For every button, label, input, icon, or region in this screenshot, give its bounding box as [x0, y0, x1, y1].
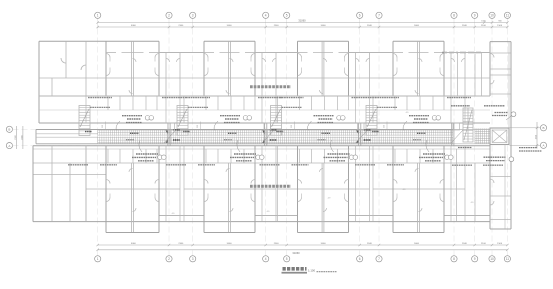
top unit block 2	[204, 41, 255, 96]
svg-text:4.9: 4.9	[328, 198, 332, 200]
svg-text:B: B	[8, 128, 10, 132]
party wall crossing corridor at grid 453	[452, 123, 454, 146]
bottom unit mid wall	[184, 188, 276, 190]
bottom unit block 2	[184, 146, 276, 233]
svg-text:2340: 2340	[274, 243, 280, 245]
annotation cluster above corridor unit 4	[403, 116, 441, 131]
top unit block 1	[106, 41, 159, 96]
room number label	[403, 189, 407, 191]
bottom unit block 3	[278, 146, 370, 233]
bottom unit mid wall	[86, 188, 180, 190]
svg-text:B: B	[542, 126, 544, 130]
grid bubble 10 bottom	[489, 250, 495, 262]
svg-text:2340: 2340	[462, 243, 468, 245]
svg-text:6: 6	[359, 257, 361, 261]
bottom overall dimension line 31060	[97, 249, 509, 255]
grid line 6	[359, 19, 361, 245]
svg-text:2340: 2340	[367, 25, 373, 27]
grid bubble 3 top	[190, 12, 196, 18]
svg-text:7: 7	[378, 14, 380, 18]
svg-text:2340: 2340	[462, 25, 468, 27]
svg-text:1: 1	[97, 257, 99, 261]
grid bubble 11 top	[504, 12, 510, 18]
svg-text:4.9: 4.9	[172, 213, 176, 215]
grid line 9	[474, 19, 476, 245]
grid line 4	[265, 19, 267, 245]
corridor door tags at grid 169	[166, 130, 181, 143]
stair 2	[177, 106, 190, 136]
grid line 3	[192, 19, 194, 245]
svg-text:10: 10	[490, 14, 494, 18]
grid line 1	[97, 19, 99, 245]
grid bubble 5 top	[284, 12, 290, 18]
corridor inline labels	[413, 130, 463, 143]
room labels above corridor unit 1	[88, 98, 186, 108]
top unit 2 partitions	[184, 53, 276, 124]
right row dimension	[510, 122, 541, 149]
party wall crossing corridor at grid 266	[265, 123, 267, 146]
bottom unit block 4	[373, 146, 465, 233]
svg-text:2340: 2340	[274, 25, 280, 27]
corridor dim text	[102, 122, 106, 130]
corridor top wall	[39, 122, 490, 124]
room number label	[172, 213, 176, 215]
party wall crossing corridor at grid 360	[359, 123, 361, 146]
top unit 1 partitions	[86, 53, 180, 124]
svg-text:5060: 5060	[131, 25, 137, 27]
corridor walkway split line	[98, 135, 453, 137]
grid bubble 4 top	[263, 12, 269, 18]
svg-text:11: 11	[506, 14, 510, 18]
grid bubble 2 top	[166, 12, 172, 18]
bottom row horizontal walls	[33, 146, 490, 222]
title: floor plan 1:100	[282, 268, 337, 273]
svg-text:6: 6	[359, 14, 361, 18]
right tower upper rooms	[490, 42, 511, 229]
svg-text:4.9: 4.9	[471, 202, 475, 204]
svg-text:1500: 1500	[497, 243, 503, 245]
watermark upper	[250, 85, 291, 88]
svg-text:2100: 2100	[481, 25, 487, 27]
grid bubble 3 bottom	[190, 250, 196, 262]
grid bubble 7 bottom	[376, 250, 382, 262]
room number label	[267, 211, 271, 213]
room number label	[406, 112, 410, 114]
svg-text:2: 2	[168, 257, 170, 261]
row bubble A right	[540, 142, 546, 148]
corridor dim text	[197, 122, 201, 130]
svg-text:10: 10	[490, 257, 494, 261]
corridor hatch	[98, 130, 453, 144]
watermark lower	[250, 185, 291, 188]
left cap partitions	[52, 41, 86, 96]
svg-text:4.9: 4.9	[406, 112, 410, 114]
svg-text:5060: 5060	[321, 25, 327, 27]
corridor inline labels	[224, 130, 274, 143]
elevator shaft	[490, 128, 509, 145]
grid bubble 5 bottom	[284, 250, 290, 262]
top row internal walls	[39, 78, 490, 110]
top unit block 3	[298, 41, 349, 96]
annotation cluster above corridor unit 2	[214, 116, 252, 131]
bottom left cap partitions	[52, 146, 86, 222]
grid bubble 8 top	[451, 12, 457, 18]
svg-text:5060: 5060	[414, 25, 420, 27]
annotation cluster below corridor unit 3	[260, 140, 358, 165]
annotation cluster below corridor unit 2	[166, 140, 264, 165]
svg-text:2340: 2340	[178, 243, 184, 245]
svg-text:31060: 31060	[292, 251, 300, 255]
room labels above corridor unit 3	[280, 98, 376, 108]
svg-text:9: 9	[474, 257, 476, 261]
corridor door tags at grid 360	[356, 130, 371, 143]
grid bubble 7 top	[376, 12, 382, 18]
left row dimension	[13, 126, 98, 149]
row bubble A left	[6, 143, 12, 149]
svg-text:2340: 2340	[367, 243, 373, 245]
bottom bay dimension line	[97, 243, 509, 246]
grid line 10	[491, 19, 493, 245]
stair 4	[366, 106, 379, 136]
bottom unit mid wall	[373, 188, 465, 190]
row bubble B left	[6, 126, 12, 132]
svg-text:250: 250	[384, 125, 386, 128]
svg-text:1: 1	[97, 14, 99, 18]
grid bubble 1 bottom	[95, 250, 101, 262]
entry porch	[168, 123, 175, 130]
grid line 2	[168, 19, 170, 245]
svg-text:5060: 5060	[227, 243, 233, 245]
stair 1	[79, 106, 92, 136]
svg-text:11: 11	[506, 257, 510, 261]
grid bubble 9 top	[472, 12, 478, 18]
svg-text:250: 250	[102, 125, 104, 128]
right end annotations	[451, 106, 542, 165]
annotation cluster below corridor unit 1	[68, 140, 166, 165]
svg-text:5060: 5060	[131, 243, 137, 245]
elevator lobby hatch	[453, 129, 490, 144]
svg-text:4.9: 4.9	[267, 211, 271, 213]
svg-text:250: 250	[197, 125, 199, 128]
svg-text:1:100: 1:100	[308, 268, 315, 272]
svg-text:5060: 5060	[321, 243, 327, 245]
row bubble B right	[540, 125, 546, 131]
svg-text:7: 7	[378, 257, 380, 261]
grid bubble 4 bottom	[263, 250, 269, 262]
room number label	[328, 198, 332, 200]
svg-text:900: 900	[498, 21, 501, 23]
svg-text:5: 5	[286, 14, 288, 18]
svg-text:4: 4	[265, 14, 267, 18]
svg-text:250: 250	[291, 125, 293, 128]
svg-text:A: A	[8, 144, 10, 148]
svg-text:4: 4	[265, 257, 267, 261]
annotation cluster below corridor unit 4	[355, 140, 453, 165]
svg-text:8: 8	[453, 14, 455, 18]
svg-text:2100: 2100	[481, 243, 487, 245]
svg-text:5060: 5060	[414, 243, 420, 245]
stair 5 (by elevator)	[463, 108, 473, 142]
grid line 11	[506, 19, 508, 245]
right end upper partitions	[442, 53, 482, 97]
svg-text:3: 3	[192, 257, 194, 261]
recessed facade line bottom	[159, 215, 490, 217]
svg-text:5: 5	[286, 257, 288, 261]
svg-text:3: 3	[192, 14, 194, 18]
grid bubble 8 bottom	[451, 250, 457, 262]
stair 3	[271, 106, 284, 136]
entry porch	[358, 123, 365, 130]
room labels above corridor unit 2	[186, 98, 282, 108]
bottom unit mid wall	[278, 188, 370, 190]
svg-text:A: A	[542, 144, 544, 148]
corridor dim text	[384, 122, 388, 130]
annotation cluster above corridor unit 1	[116, 116, 154, 131]
annotation cluster above corridor unit 3	[308, 116, 346, 131]
room labels above corridor unit 4	[375, 98, 471, 108]
grid line 5	[286, 19, 288, 245]
left cap outer wall	[39, 41, 106, 123]
top unit 4 partitions	[373, 53, 465, 124]
corridor inline labels	[318, 130, 368, 143]
svg-text:5060: 5060	[227, 25, 233, 27]
grid bubble 10 top	[489, 12, 495, 18]
top unit 3 partitions	[278, 53, 370, 124]
grid bubble 11 bottom	[504, 250, 510, 262]
corridor dim text	[291, 122, 295, 130]
top bay dimension line	[97, 25, 509, 28]
grid line 7	[378, 19, 380, 245]
grid bubble 6 top	[357, 12, 363, 18]
grid bubble 6 bottom	[357, 250, 363, 262]
entry porch	[264, 123, 271, 130]
grid bubble 2 bottom	[166, 250, 172, 262]
svg-text:2: 2	[168, 14, 170, 18]
corridor inline labels	[126, 130, 176, 143]
grid line 8	[453, 19, 455, 245]
room number label	[471, 202, 475, 204]
corridor door tags at grid 266	[262, 130, 277, 143]
entry porch	[453, 123, 460, 130]
recessed facade line top	[159, 52, 490, 54]
svg-text:9: 9	[474, 14, 476, 18]
grid bubble 9 bottom	[472, 250, 478, 262]
corridor floor edges	[36, 130, 453, 144]
top unit block 4	[393, 41, 444, 96]
svg-text:31060: 31060	[298, 18, 306, 22]
party wall crossing corridor at grid 169	[168, 123, 170, 146]
svg-text:1500: 1500	[497, 25, 503, 27]
bottom right tower rooms	[457, 145, 512, 230]
svg-text:8: 8	[453, 257, 455, 261]
grid bubble 1 top	[95, 12, 101, 18]
bottom unit block 1	[86, 146, 180, 233]
top overall dimension line 31060	[97, 18, 509, 23]
svg-text:2340: 2340	[178, 25, 184, 27]
